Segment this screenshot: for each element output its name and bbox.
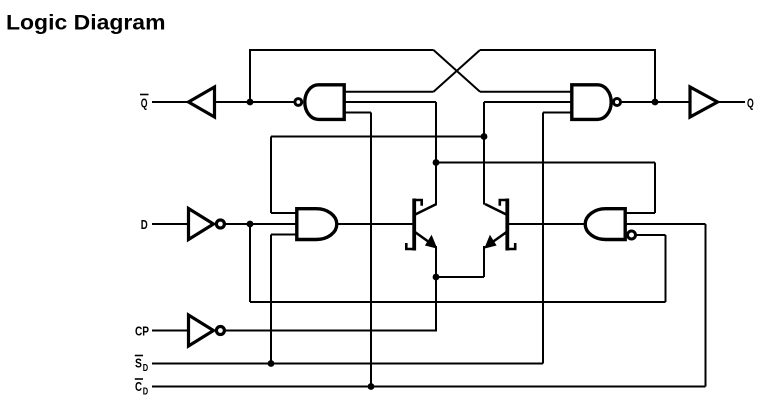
wire Q-bar label to buffer — [152, 101, 189, 103]
wire right AND U4 output to transistor Q2 base — [507, 223, 585, 225]
schottky hook top — [414, 200, 422, 206]
wire D-bar rail across — [250, 301, 666, 303]
wire top rail down to node Q — [654, 50, 656, 102]
collector diagonal — [485, 204, 507, 215]
collector diagonal — [414, 204, 436, 215]
emitter arrowhead — [425, 235, 437, 249]
and U4 (right AND gate, inputs on right, bubble on lower input) — [585, 209, 635, 240]
wire top rail left segment — [249, 49, 434, 51]
wire left NAND U1 bottom input — [344, 112, 371, 114]
label CD-bar (clear input) — [135, 379, 148, 398]
wire clock vertical down to CP rail — [435, 277, 437, 331]
svg-text:D: D — [141, 217, 148, 232]
wire crossover diagonal (left rail down to right NAND input) — [434, 50, 481, 92]
node CL (junction dot, left collector to cross rail) — [433, 159, 440, 166]
svg-text:C: C — [135, 379, 142, 394]
base bar — [412, 199, 416, 251]
svg-text:D: D — [143, 363, 148, 374]
svg-text:S: S — [135, 356, 142, 371]
wire vertical x655 down to right AND top input — [654, 163, 656, 214]
wire right NAND U2 top input — [480, 91, 572, 93]
emitter diagonal — [414, 232, 431, 244]
base bar — [505, 199, 509, 251]
wire vertical x543 (SD-bar to right NAND) — [542, 113, 544, 364]
transistor Q2 (right Schottky clamped transistor) — [484, 199, 515, 251]
schottky hook bottom — [507, 243, 515, 249]
wire vertical x271 down to left AND top input — [270, 137, 272, 214]
node D1 (junction dot on D-bar node) — [247, 221, 254, 228]
wire left NAND U1 top input — [344, 91, 434, 93]
inverter A3 (D input inverter) — [189, 209, 225, 240]
wire inverter A3 to left AND middle input — [224, 223, 297, 225]
wire into left AND U3 top input — [271, 212, 297, 214]
node CR (junction dot, right collector to cross rail) — [481, 133, 488, 140]
and U3 (left AND gate) — [297, 209, 337, 240]
wire into right AND U4 bubble — [636, 234, 666, 236]
wire NAND U2 bubble to buffer A2 — [621, 101, 691, 103]
wire vertical x371 (CD-bar to left NAND) — [370, 113, 372, 387]
wire right NAND U2 bottom input — [543, 112, 572, 114]
wire vertical x484 (NAND2-R / right collector node) — [483, 102, 485, 205]
emitter arrowhead — [484, 235, 496, 249]
wire right AND U4 middle input — [625, 223, 706, 225]
wire into right AND U4 top input — [625, 212, 655, 214]
buffer A2 (Q output buffer, right-pointing triangle) — [690, 87, 718, 117]
nand U1 (left NAND, output bubble on left) — [295, 85, 344, 120]
transistor Q1 (left Schottky clamped transistor) — [406, 199, 437, 251]
inverter A4 (CP input inverter) — [189, 315, 225, 346]
wire left NAND U1 middle input to left collector vertical — [344, 101, 436, 103]
wire left AND U3 bottom input elbow — [271, 234, 297, 236]
wire left AND U3 output to transistor Q1 base — [337, 223, 414, 225]
wire rail162 (left collector node to right AND top input) — [436, 162, 655, 164]
wire right emitter vertical — [483, 246, 485, 277]
svg-text:Q: Q — [747, 96, 754, 111]
nand U2 (right NAND, output bubble on right) — [572, 85, 621, 120]
node Q (junction dot on Q wire) — [652, 99, 659, 106]
svg-text:D: D — [143, 387, 148, 398]
label SD-bar (set input) — [135, 356, 148, 375]
wire vertical x271 down to SD-bar rail — [270, 235, 272, 364]
svg-text:CP: CP — [135, 324, 149, 339]
wire emitter rail — [436, 276, 484, 278]
svg-text:Logic Diagram: Logic Diagram — [6, 11, 166, 34]
svg-text:Q: Q — [141, 96, 148, 111]
label Q-bar (left output) — [140, 95, 149, 111]
wire node QB up to top rail — [249, 50, 251, 102]
schottky hook bottom — [406, 243, 414, 249]
wire right NAND U2 middle input to right collector vertical — [484, 101, 572, 103]
wire vertical x436 (NAND2-L / left collector node) — [435, 102, 437, 205]
schottky hook top — [500, 200, 508, 206]
wire D-bar vertical down — [249, 224, 251, 302]
wire rail137 (right collector node to left AND top input) — [271, 136, 484, 138]
wire vertical x705 down to CD-bar rail — [705, 224, 707, 387]
wire D-bar rail up to right AND bubble input — [665, 235, 667, 302]
emitter diagonal — [491, 232, 508, 244]
wire buffer A1 to NAND U1 bubble — [215, 101, 295, 103]
wire CD-bar rail — [152, 386, 706, 388]
wire crossover diagonal (right rail down to left NAND input) — [434, 50, 481, 92]
wire CP label to inverter — [152, 330, 189, 332]
buffer A1 (Q-bar output buffer, left-pointing triangle) — [189, 87, 215, 117]
node CD1 (junction dot on CD-bar rail) — [368, 383, 375, 390]
node SD1 (junction dot on SD-bar rail) — [268, 360, 275, 367]
wire buffer A2 to Q label — [718, 101, 746, 103]
wire left emitter down to clock node — [435, 246, 437, 277]
wire CP rail to emitters — [224, 330, 437, 332]
node E (common emitter junction dot) — [433, 274, 440, 281]
wire D label to inverter — [152, 223, 189, 225]
wire top rail right segment — [480, 49, 656, 51]
node QB (junction dot on Q-bar wire) — [247, 99, 254, 106]
wire SD-bar rail — [152, 363, 543, 365]
